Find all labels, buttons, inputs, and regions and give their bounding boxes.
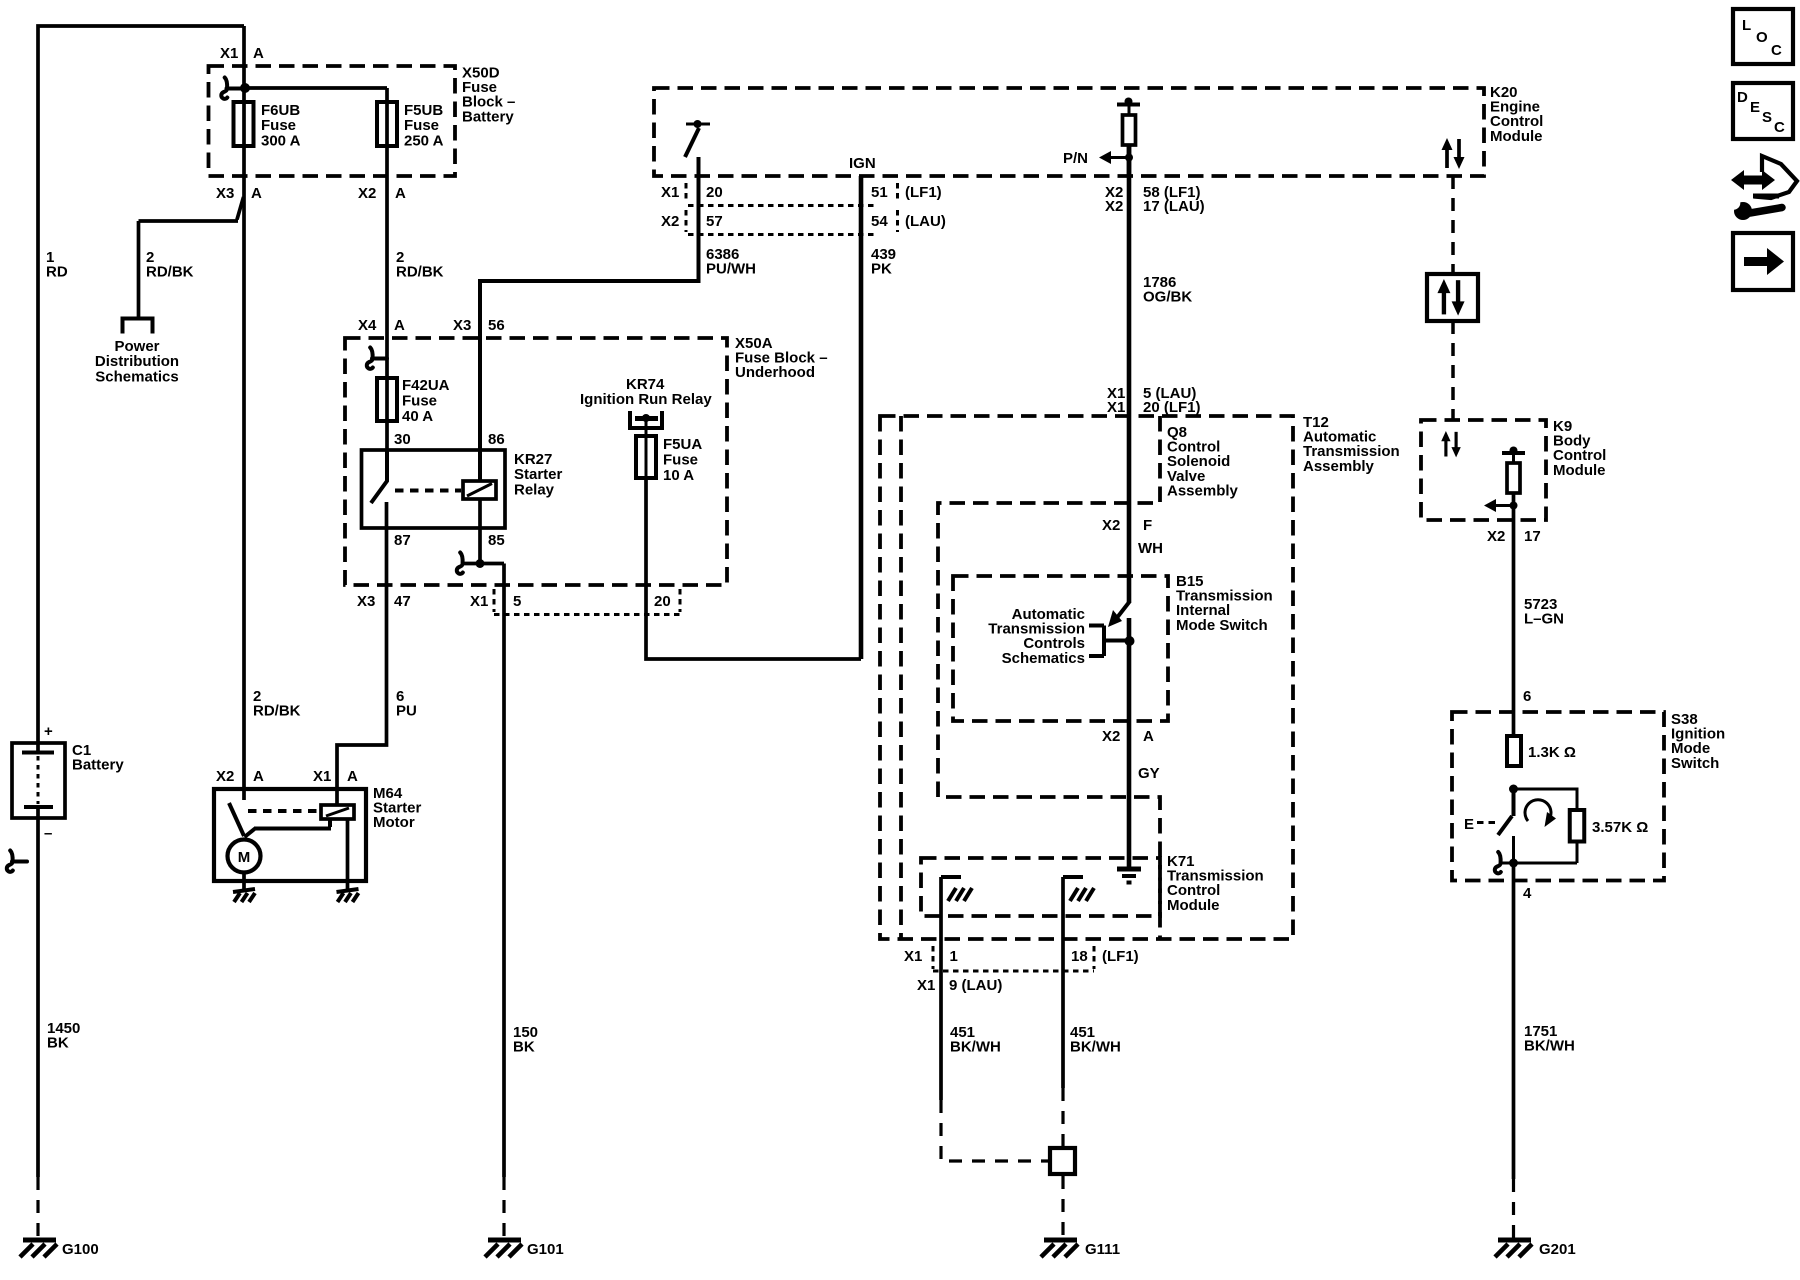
svg-text:30: 30 [394,431,411,448]
K9 output arrow [1489,504,1514,507]
wire 451 BK/WH left K71 ground [939,877,943,1100]
svg-text:P/N: P/N [1063,150,1088,167]
svg-text:5: 5 [513,593,521,610]
svg-text:BK: BK [513,1039,535,1056]
svg-text:40 A: 40 A [402,408,433,425]
svg-text:D: D [1737,89,1748,106]
S38 rotation arrow [1525,800,1551,821]
K9 serial data up-down arrows [1441,431,1461,457]
svg-text:IGN: IGN [849,155,876,172]
K71 left hatch ground [941,875,961,879]
svg-text:A: A [253,45,264,62]
svg-text:A: A [347,768,358,785]
svg-text:BK/WH: BK/WH [1524,1038,1575,1055]
svg-text:X2: X2 [1487,528,1505,545]
dashed wire to ground G201 [1512,1179,1515,1238]
fuse F5UB 250 A [377,102,397,146]
automatic transmission controls schematics pointer [1089,626,1104,657]
svg-text:X1: X1 [313,768,331,785]
svg-text:51: 51 [871,184,888,201]
svg-text:X3: X3 [453,317,471,334]
svg-text:X2: X2 [1102,728,1120,745]
svg-text:20 (LF1): 20 (LF1) [1143,399,1201,416]
svg-text:RD/BK: RD/BK [146,264,194,281]
svg-text:17 (LAU): 17 (LAU) [1143,198,1205,215]
svg-text:300 A: 300 A [261,132,301,149]
M64 solenoid coil [321,805,354,819]
serial data dashed wire ECM to gateway [1451,176,1455,274]
svg-text:Switch: Switch [1671,755,1719,772]
svg-text:A: A [251,185,262,202]
serial data gateway box with arrows [1427,274,1478,321]
svg-text:1: 1 [950,948,958,965]
ground G201 [1495,1240,1532,1257]
svg-text:RD/BK: RD/BK [396,264,444,281]
svg-text:86: 86 [488,431,505,448]
LOC legend icon [1733,9,1793,64]
svg-text:X2: X2 [661,213,679,230]
svg-text:20: 20 [654,593,671,610]
fuse block X50A dashed box [345,338,727,585]
svg-text:Mode Switch: Mode Switch [1176,617,1268,634]
svg-text:Motor: Motor [373,814,415,831]
wire KR27 pin 85 to ground G101 wire 150 BK [462,499,504,1177]
wire 1751 BK/WH from S38 to G201 [1512,863,1516,1179]
svg-text:E: E [1464,816,1474,833]
svg-text:(LF1): (LF1) [905,184,942,201]
svg-text:–: – [44,825,52,842]
svg-text:85: 85 [488,532,505,549]
svg-text:PU: PU [396,703,417,720]
svg-text:S: S [1762,109,1772,126]
svg-text:A: A [395,185,406,202]
M64 solenoid mechanical link dashed [248,809,321,813]
S38 ignition mode switch dashed box [1452,712,1664,881]
svg-text:6: 6 [1523,688,1531,705]
wire 2 RD/BK fuse F6UB feed to starter motor X2-A [242,26,246,800]
svg-text:G101: G101 [527,1241,564,1258]
ground G101 [485,1240,522,1257]
svg-text:E: E [1750,99,1760,116]
svg-text:Battery: Battery [72,757,124,774]
svg-text:X3: X3 [357,593,375,610]
wire branch to Power Distribution Schematics [139,197,244,317]
svg-text:20: 20 [706,184,723,201]
svg-text:1.3K Ω: 1.3K Ω [1528,744,1576,761]
S38 lower contact connector hook [1495,852,1501,873]
svg-text:X2: X2 [1105,198,1123,215]
ECM P/N pull-up resistor [1123,115,1136,145]
wire 5723 L-GN from K9 BCM to S38 [1512,493,1516,736]
M64 solenoid to motor link [245,819,332,837]
svg-text:A: A [1143,728,1154,745]
svg-text:18: 18 [1071,948,1088,965]
ECM K20 dashed box [654,88,1484,176]
M64 solenoid hatch ground [337,889,359,902]
ground G100 [20,1240,57,1257]
svg-text:Relay: Relay [514,481,555,498]
ECM P/N pull-up resistor terminal [1117,103,1140,107]
ECM serial data up-down arrows [1442,138,1465,169]
svg-text:A: A [394,317,405,334]
KR27 relay mechanical link dashed [395,489,461,493]
wire 1450 BK battery negative to G100 [36,809,40,1177]
KR27 relay switch blade pin 30 to 87 [371,450,387,503]
svg-text:X3: X3 [216,185,234,202]
svg-text:X1: X1 [470,593,488,610]
Q8 control solenoid valve assembly dashed boundary [938,416,1160,939]
svg-text:9 (LAU): 9 (LAU) [949,977,1002,994]
next page arrow icon [1733,233,1793,290]
svg-text:X1: X1 [1107,399,1125,416]
fuse F42UA 40 A [377,378,397,421]
connector hook at F42UA [367,348,387,369]
svg-text:+: + [44,723,53,740]
fuse block X50D dashed box [209,66,456,176]
svg-text:3.57K Ω: 3.57K Ω [1592,819,1648,836]
svg-text:G201: G201 [1539,1241,1576,1258]
svg-text:Underhood: Underhood [735,364,815,381]
svg-text:Module: Module [1553,462,1606,479]
ECM ignition switch symbol [686,123,710,126]
svg-text:M: M [238,849,251,866]
wire 2 RD/BK fuse F5UB branch [245,88,387,481]
dashed wire right 451 BK/WH to splice [1061,1088,1064,1146]
S38 branch to 3.57K resistor [1500,789,1577,863]
K71 right hatch ground [1063,875,1083,879]
svg-text:Module: Module [1490,128,1543,145]
svg-text:57: 57 [706,213,723,230]
svg-text:87: 87 [394,532,411,549]
svg-text:250 A: 250 A [404,132,444,149]
chassis ground B15 GY wire [1117,867,1141,872]
battery C1 [12,743,65,818]
junction node S38 upper [1509,785,1518,794]
svg-text:C: C [1774,119,1785,136]
svg-text:10 A: 10 A [663,467,694,484]
DESC legend icon [1733,83,1793,139]
svg-text:17: 17 [1524,528,1541,545]
ECM connector X1/X2 dotted boundary [686,183,898,232]
svg-text:BK: BK [47,1035,69,1052]
svg-text:RD: RD [46,264,68,281]
svg-text:56: 56 [488,317,505,334]
svg-text:WH: WH [1138,540,1163,557]
wire KR27 pin 87 to starter motor X1-A wire 6 PU [337,502,387,805]
fuse F6UB 300 A [234,102,254,146]
svg-text:G111: G111 [1085,1241,1120,1258]
wire 451 BK/WH right K71 ground [1061,877,1065,1088]
svg-text:PK: PK [871,261,892,278]
connector hook at F6UB [221,78,244,99]
svg-text:X4: X4 [358,317,377,334]
svg-text:X1: X1 [220,45,238,62]
svg-text:PU/WH: PU/WH [706,261,756,278]
junction node S38 lower [1509,859,1518,868]
svg-text:Assembly: Assembly [1167,482,1239,499]
svg-text:4: 4 [1523,885,1532,902]
S38 resistor 3.57K ohm [1570,810,1585,842]
battery negative cable connector hook [7,851,27,872]
serial data dashed wire gateway to K9 BCM [1451,321,1455,420]
wire 439 PK from fuse F5UA pin 20 to ECM IGN [646,478,861,659]
splice S-connector square [1050,1148,1075,1174]
svg-text:GY: GY [1138,765,1160,782]
B15 mode switch blade [1116,601,1130,619]
svg-text:Assembly: Assembly [1303,458,1375,475]
svg-text:OG/BK: OG/BK [1143,289,1192,306]
wire 1 RD battery positive feed [38,26,244,751]
M64 motor hatch ground [233,889,255,902]
svg-text:47: 47 [394,593,411,610]
svg-text:RD/BK: RD/BK [253,703,301,720]
svg-text:Schematics: Schematics [1002,650,1085,667]
S38 E position dashed link [1477,821,1497,824]
KR27 pin 85 connector hook [457,553,463,574]
svg-text:(LF1): (LF1) [1102,948,1139,965]
M64 motor ground wire [242,873,246,891]
svg-text:Battery: Battery [462,108,514,125]
ground G111 [1041,1240,1078,1257]
svg-text:Module: Module [1167,897,1220,914]
K71 connector X1 dotted boundary [933,946,1094,971]
X50A connector X1 dotted boundary [494,589,680,615]
fuse F5UA 10 A [636,436,656,478]
svg-text:C: C [1771,42,1782,59]
starter relay KR27 box [362,450,506,528]
B15 transmission internal mode switch dashed box [953,576,1168,721]
S38 switch blade [1498,789,1514,835]
svg-text:F: F [1143,517,1152,534]
svg-text:X1: X1 [917,977,935,994]
svg-text:54: 54 [871,213,888,230]
M64 solenoid ground wire [346,819,350,890]
dashed wire to ground G100 [36,1177,39,1238]
svg-text:BK/WH: BK/WH [1070,1039,1121,1056]
svg-text:Ignition Run Relay: Ignition Run Relay [580,391,712,408]
K9 resistor [1507,463,1520,493]
off-page connector Power Distribution Schematics [123,319,153,334]
T12 inner dashed boundary [899,416,903,939]
dashed wire left 451 BK/WH to splice [941,1100,1048,1161]
svg-text:G100: G100 [62,1241,99,1258]
K9 body control module dashed box [1421,420,1546,520]
motor M of M64 [228,840,261,873]
svg-text:BK/WH: BK/WH [950,1039,1001,1056]
starter motor M64 box [214,789,366,881]
dashed wire to ground G101 [502,1177,505,1238]
K9 resistor terminal bar [1502,451,1525,455]
svg-text:X2: X2 [1102,517,1120,534]
svg-text:X2: X2 [216,768,234,785]
KR27 relay coil [463,481,496,499]
junction node KR27 pin 85 [476,559,485,568]
diagnostic repair icon [1731,170,1775,190]
svg-text:L: L [1742,17,1751,34]
ECM P/N output arrow [1104,156,1129,159]
wire 6386 PU/WH from ECM X1-20 to starter relay coil 86 [480,157,699,481]
junction node at F6UB/F5UB feed [240,83,250,93]
dashed wire splice to ground G111 [1061,1176,1064,1238]
S38 resistor 1.3K ohm [1507,736,1521,766]
svg-text:O: O [1756,29,1768,46]
wire 1786 OG/BK from ECM P/N output through T12 [1127,145,1132,602]
K71 transmission control module dashed box [921,858,1160,916]
T12 automatic transmission assembly dashed box [880,416,1293,939]
ignition run relay KR74 contact [628,411,664,428]
svg-text:Schematics: Schematics [95,368,178,385]
svg-text:(LAU): (LAU) [905,213,946,230]
svg-text:A: A [253,768,264,785]
svg-text:X1: X1 [904,948,922,965]
svg-text:X1: X1 [661,184,679,201]
svg-text:L–GN: L–GN [1524,611,1564,628]
M64 contact switch blade [229,803,244,836]
svg-text:X2: X2 [358,185,376,202]
